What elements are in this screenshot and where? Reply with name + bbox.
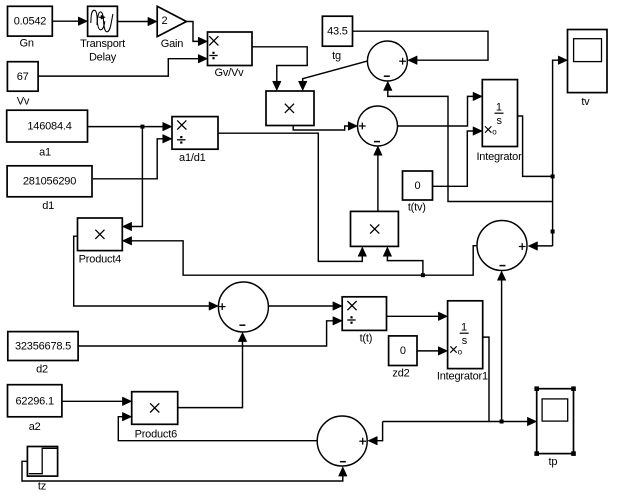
- svg-text:a1/d1: a1/d1: [179, 152, 206, 164]
- wire a2 to Product6 input1: [62, 397, 132, 406]
- svg-text:281056290: 281056290: [23, 176, 76, 188]
- label Integrator1: [437, 371, 488, 383]
- svg-text:Product6: Product6: [135, 429, 178, 441]
- integrator block Integrator1: [448, 301, 483, 369]
- wire Gain to Gv/Vv x-input: [186, 22, 207, 46]
- junction dot on products line: [421, 273, 425, 277]
- wire tp line horizontal: [383, 417, 537, 426]
- svg-text:1: 1: [461, 322, 467, 334]
- label Gain: [161, 38, 184, 50]
- sum A circle: [367, 41, 407, 81]
- wire tp line branch down to sum E plus input: [368, 422, 383, 446]
- product block Product3: [351, 211, 399, 246]
- wire a1 to a1/d1 x-input: [87, 122, 172, 131]
- label Product6: [135, 429, 178, 441]
- junction dot on tp line: [500, 420, 504, 424]
- label t(t): [360, 333, 373, 345]
- svg-text:Integrator1: Integrator1: [437, 371, 488, 383]
- wire Vv to Gv/Vv divide-input: [38, 54, 207, 76]
- wire Integrator1 output down to tp line: [483, 337, 489, 421]
- svg-text:Transport: Transport: [80, 38, 125, 50]
- constant tg value 43.5: [322, 16, 352, 46]
- svg-text:tv: tv: [581, 96, 590, 108]
- svg-text:32356678.5: 32356678.5: [15, 341, 71, 353]
- integrator block Integrator: [482, 80, 517, 147]
- svg-text:43.5: 43.5: [327, 26, 348, 38]
- svg-text:zd2: zd2: [392, 368, 409, 380]
- label Transport Delay: [80, 38, 125, 64]
- wire sum B to Integrator input1: [398, 92, 483, 126]
- svg-text:67: 67: [17, 71, 29, 83]
- svg-text:Gain: Gain: [161, 38, 184, 50]
- sum D minus sign: [500, 265, 506, 267]
- junction dot trunk lower: [551, 230, 555, 234]
- svg-text:t(tv): t(tv): [408, 202, 426, 214]
- sum E plus sign: [359, 438, 366, 445]
- label zd2: [392, 368, 409, 380]
- label a1/d1: [179, 152, 206, 164]
- trunk wire vertical (tv signal): [553, 56, 568, 246]
- constant Vv value 67: [7, 62, 38, 91]
- label d1: [42, 200, 54, 212]
- sum D plus sign: [519, 243, 526, 250]
- product block Product1: [266, 91, 314, 126]
- label t(tv): [408, 202, 426, 214]
- gain block Gain value 2: [157, 6, 186, 36]
- svg-text:a2: a2: [29, 421, 41, 433]
- constant zd2 value 0: [389, 336, 417, 366]
- wire trunk to sum D plus input: [528, 242, 552, 251]
- sum B minus sign: [374, 141, 380, 143]
- label Integrator: [476, 151, 522, 163]
- wire Product3 output to sum B minus input: [374, 146, 383, 211]
- sum C minus sign: [239, 324, 245, 326]
- wire zd2 to Integrator1 xo input: [417, 347, 448, 356]
- wire tp line branch up to sum D minus input: [497, 271, 506, 422]
- svg-text:62296.1: 62296.1: [16, 395, 54, 407]
- svg-text:Product4: Product4: [79, 254, 122, 266]
- product block Gv/Vv: [208, 32, 253, 66]
- label Product4: [79, 254, 122, 266]
- label tp: [549, 456, 558, 468]
- wire Gv/Vv to Product1 input1: [252, 47, 307, 91]
- block Transport Delay: [88, 6, 118, 36]
- label Gv/Vv: [215, 67, 245, 79]
- wire sum A output to Product1 input2 (diagonal): [298, 61, 368, 91]
- wire tg to sum A plus input: [353, 31, 489, 64]
- svg-text:s: s: [462, 335, 468, 347]
- sum A plus sign: [399, 58, 406, 65]
- wire products line branch to Product3 right input: [383, 247, 423, 275]
- label d2: [36, 364, 48, 376]
- wire Product1 to sum B plus input: [293, 122, 357, 131]
- constant a2 value 62296.1: [8, 385, 62, 417]
- constant d2 value 32356678.5: [8, 332, 78, 361]
- junction dot trunk upper: [551, 174, 555, 178]
- svg-text:s: s: [497, 115, 503, 127]
- svg-text:Integrator: Integrator: [476, 151, 522, 163]
- wire feedback trunk to sum A minus input: [384, 81, 553, 201]
- svg-text:0: 0: [415, 180, 421, 192]
- wire t(t) to Integrator1 input1: [387, 312, 448, 321]
- sum C plus sign: [219, 303, 226, 310]
- wire Integrator output to trunk: [518, 116, 553, 176]
- svg-text:o: o: [458, 348, 463, 357]
- svg-text:Delay: Delay: [89, 52, 117, 64]
- svg-text:1: 1: [496, 102, 502, 114]
- constant Gn value 0.0542: [8, 6, 53, 36]
- step block tz: [27, 447, 57, 477]
- svg-text:2: 2: [162, 15, 168, 27]
- wire sum D output to products line: [122, 237, 477, 276]
- wire d2 to t(t) divide-input: [78, 317, 342, 347]
- wire t(tv) to Integrator xo input: [433, 127, 483, 187]
- sum A minus sign: [384, 75, 390, 77]
- wire a1 branch down to Product4 input1: [122, 127, 142, 231]
- wire a1/d1 to Product3 left input: [218, 133, 367, 261]
- sum E circle: [317, 416, 367, 466]
- svg-text:d2: d2: [36, 364, 48, 376]
- svg-text:t(t): t(t): [360, 333, 373, 345]
- svg-text:146084.4: 146084.4: [27, 120, 71, 132]
- svg-text:0.0542: 0.0542: [14, 16, 47, 28]
- svg-text:tp: tp: [549, 456, 558, 468]
- wire tz to sum E minus input: [22, 461, 347, 481]
- wire d1 to a1/d1 divide-input: [93, 135, 172, 179]
- svg-text:Gv/Vv: Gv/Vv: [215, 67, 245, 79]
- wire Gn to Transport Delay: [53, 17, 88, 26]
- sum B plus sign: [359, 123, 366, 130]
- svg-text:d1: d1: [42, 200, 54, 212]
- wire Product6 output to sum C minus input: [178, 332, 247, 407]
- label Gn: [20, 38, 34, 50]
- junction dot on a1 wire: [140, 125, 144, 129]
- scope block tv: [568, 30, 608, 93]
- label tv: [581, 96, 590, 108]
- sum E minus sign: [340, 461, 346, 463]
- product block t(t): [342, 297, 386, 331]
- product block Product4 (mirrored): [78, 218, 123, 251]
- constant a1 value 146084.4: [7, 110, 88, 142]
- svg-text:Gn: Gn: [20, 38, 34, 50]
- wire sum C to t(t) x-input: [268, 302, 342, 311]
- wire sum E output to Product6 input2: [118, 412, 317, 440]
- sum D circle: [477, 221, 527, 271]
- svg-text:Vv: Vv: [17, 96, 30, 108]
- wire Transport Delay to Gain: [117, 17, 157, 26]
- wire Product4 output to sum C plus input: [74, 236, 219, 310]
- svg-text:tg: tg: [332, 50, 341, 62]
- label Vv: [17, 96, 30, 108]
- svg-text:o: o: [492, 128, 497, 137]
- constant d1 value 281056290: [7, 166, 92, 197]
- sum B circle: [358, 106, 398, 146]
- svg-text:tz: tz: [38, 481, 46, 493]
- svg-text:0: 0: [400, 345, 406, 357]
- label tz: [38, 481, 46, 493]
- product block a1/d1: [172, 117, 218, 150]
- selection handles of tp: [534, 386, 575, 456]
- scope block tp (selected): [537, 389, 574, 454]
- product block Product6: [132, 392, 178, 425]
- label a1: [39, 147, 51, 159]
- sum C circle: [218, 282, 268, 332]
- label tg: [332, 50, 341, 62]
- constant t(tv) value 0: [403, 171, 433, 200]
- svg-text:a1: a1: [39, 147, 51, 159]
- label a2: [29, 421, 41, 433]
